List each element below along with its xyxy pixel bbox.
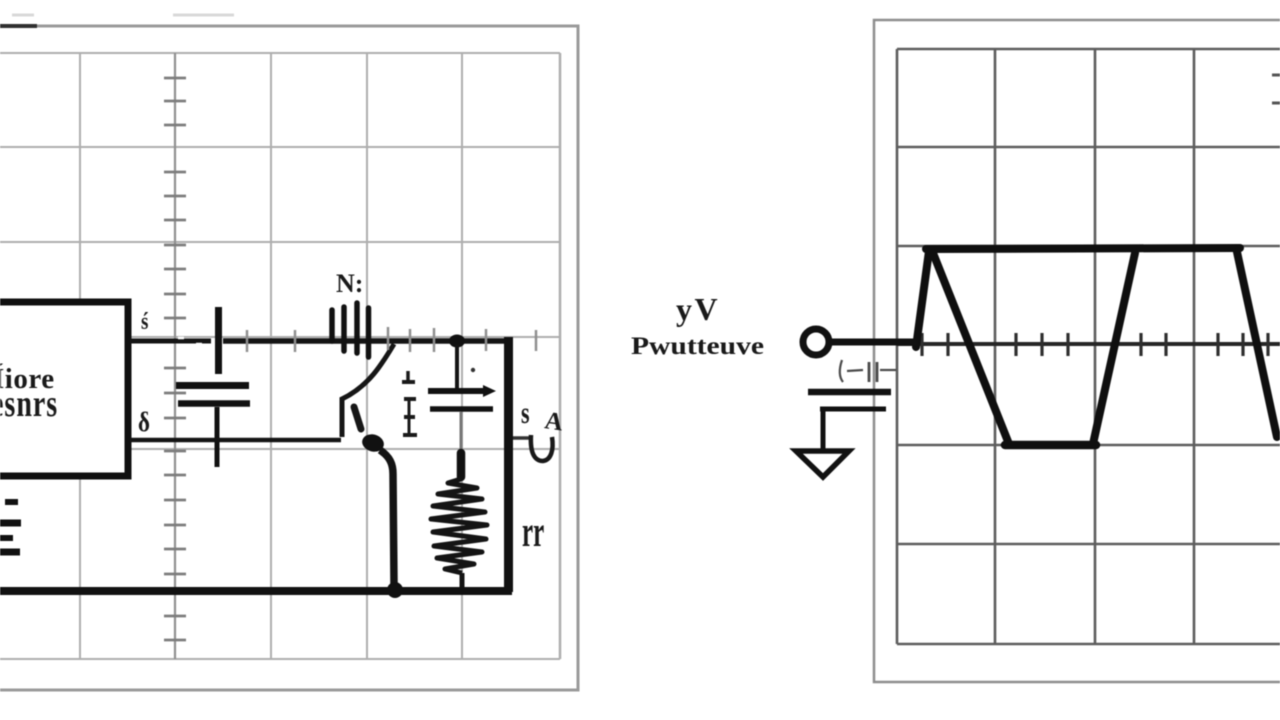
capacitor C1 plate bar — [215, 307, 222, 374]
ground symbol — [0, 502, 21, 552]
svg-text:δ: δ — [138, 407, 150, 437]
left panel grid — [0, 53, 560, 659]
capacitor C3 multi-plate — [332, 303, 369, 357]
pin 2 label — [138, 407, 150, 437]
wire elbow to ground — [821, 411, 826, 450]
svg-text:yV: yV — [676, 291, 720, 327]
wire from terminal — [829, 339, 917, 346]
right panel grid — [897, 49, 1280, 644]
hook glyph S node — [531, 435, 553, 461]
capacitor C2 — [176, 386, 250, 468]
svg-text:N:: N: — [336, 269, 363, 298]
wire pin1 top — [130, 338, 211, 344]
wire right side — [504, 337, 513, 592]
svg-text:s: s — [521, 395, 530, 430]
right panel outer border frame — [874, 20, 1280, 682]
resistor R1 — [431, 453, 487, 588]
variable capacitor C4 with arrow — [428, 385, 496, 450]
pin 1 label — [141, 308, 148, 335]
generator box U1 — [0, 302, 128, 476]
transistor emitter blob — [360, 432, 386, 454]
wire pin2 — [130, 438, 341, 443]
svg-text:ś: ś — [141, 308, 148, 335]
label N — [336, 269, 363, 298]
vertical ruler line with tick marks — [164, 53, 186, 659]
svg-text:A: A — [543, 407, 565, 436]
ground triangle — [796, 451, 849, 477]
junction dot bottom — [387, 582, 403, 598]
time axis with ticks — [897, 333, 1280, 356]
transistor Q1 — [342, 344, 394, 437]
stray dot mark — [471, 368, 475, 372]
label waveform name — [631, 333, 764, 360]
right edge ruler marks — [1272, 75, 1280, 103]
wire top net — [223, 338, 513, 344]
svg-text:esnrs: esnrs — [0, 383, 58, 425]
junction node A — [449, 335, 465, 348]
svg-text:Pwutteuve: Pwutteuve — [631, 333, 764, 360]
wire bottom net — [0, 587, 512, 595]
wire stem node A down — [455, 345, 459, 388]
glyph mark 3 — [403, 399, 417, 435]
label S — [521, 395, 530, 430]
label R value — [522, 507, 544, 556]
gray ruler ticks on wires — [247, 327, 536, 352]
left panel outer border frame — [0, 15, 578, 690]
label A — [543, 407, 565, 436]
wire collector down — [380, 450, 394, 584]
wire stub to hook — [513, 436, 529, 440]
capacitor C5 plates — [808, 392, 891, 409]
label yV — [676, 291, 720, 327]
source terminal circle — [803, 329, 829, 355]
small garbled marks — [840, 360, 896, 382]
svg-text:rr: rr — [522, 507, 544, 556]
glyph mark T — [402, 371, 415, 382]
waveform trace — [916, 248, 1277, 445]
